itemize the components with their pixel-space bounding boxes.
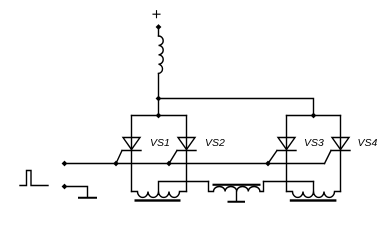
node gate bus left end xyxy=(62,161,68,167)
transformer T2 core xyxy=(213,184,261,186)
transformer T3 core xyxy=(290,199,337,201)
transformer T1 core xyxy=(135,199,181,201)
inductor L coil xyxy=(159,36,164,74)
transformer T1 winding (left) xyxy=(132,192,187,198)
wire T2 to T3 tap xyxy=(264,181,314,183)
thyristor VS3 xyxy=(268,116,296,192)
node left bridge top xyxy=(156,113,162,119)
wire T3 center tap xyxy=(313,182,315,192)
transformer T2 winding (middle) xyxy=(209,182,264,192)
ground chassis bar left xyxy=(79,197,96,199)
node top of inductor xyxy=(156,24,162,30)
wire gate bus xyxy=(65,163,325,165)
thyristor VS1 xyxy=(116,116,141,192)
wire inductor to left bridge top xyxy=(158,74,160,116)
wire left bridge top edge xyxy=(132,115,187,117)
wire feed line to right bridge xyxy=(159,99,314,116)
svg-text:VS1: VS1 xyxy=(150,137,170,149)
node control return xyxy=(62,184,68,190)
svg-text:VS4: VS4 xyxy=(358,137,378,149)
ground chassis bar middle xyxy=(229,201,245,203)
wire T1 center tap xyxy=(159,182,209,192)
wire control return xyxy=(65,187,88,198)
node gate VS1 xyxy=(113,161,119,167)
svg-text:VS2: VS2 xyxy=(205,137,225,149)
node gate VS3 xyxy=(265,161,271,167)
node right bridge top xyxy=(311,113,317,119)
wire right bridge top edge xyxy=(287,115,341,117)
plus terminal label xyxy=(153,11,160,18)
node gate VS2 xyxy=(166,161,172,167)
wire inductor top lead xyxy=(158,27,160,36)
svg-text:VS3: VS3 xyxy=(304,137,324,149)
thyristor VS4 xyxy=(325,116,351,192)
thyristor VS2 xyxy=(169,116,196,192)
wire T2 center tap down xyxy=(236,192,238,202)
node feed junction xyxy=(156,96,162,102)
pulse waveform glyph xyxy=(20,171,48,186)
transformer T3 winding (right) xyxy=(287,192,341,198)
